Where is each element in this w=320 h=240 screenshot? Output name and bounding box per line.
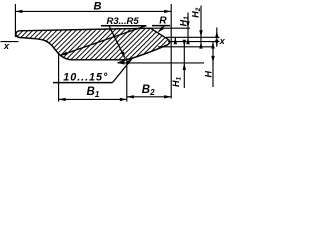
H2 arrows: L2 to L3 outside (199, 30, 202, 37)
L4 nose-bottom extension (158, 46, 214, 48)
section body outline (hatched blade cross-section) (16, 28, 170, 60)
label H (rotated) (204, 71, 214, 78)
angle leader (113, 59, 132, 83)
H1 bottom arrows: L4 to L5 outside (183, 40, 186, 47)
label H2 (top, rotated) (191, 7, 203, 18)
svg-text:x: x (3, 41, 10, 51)
R3...R5 leader to left fillet (62, 26, 147, 55)
dimension line H1 (top) (187, 13, 189, 42)
L1 top-edge extension (151, 27, 191, 29)
dimension nose height (far right): L2 to L4 (216, 28, 218, 47)
label H1 (bottom, rotated) (171, 77, 183, 88)
B extension line left (14, 4, 16, 37)
dimension line H1 (bottom) (183, 42, 185, 88)
L2 nose-top extension (166, 36, 220, 38)
B / B2 extension line right (through nose tip down to B2) (170, 4, 172, 99)
R3...R5 leader to right fillet (109, 26, 125, 58)
dimension line B1 (59, 98, 127, 100)
axis x-x left segment (1, 41, 19, 43)
dimension line H2 (200, 6, 202, 46)
svg-text:H: H (204, 71, 214, 78)
L5 bottom extension (118, 62, 205, 64)
R underline (152, 25, 170, 27)
axis x-x right segment (L3) (168, 41, 220, 43)
svg-text:10...15°: 10...15° (63, 71, 108, 83)
dimension line B (15, 10, 171, 12)
R3...R5 underline (101, 25, 147, 27)
H arrows: L3 to L5 inside (211, 42, 214, 49)
R leader to upper slope (159, 26, 165, 32)
angle vertex arrow on L5 (118, 61, 125, 64)
svg-text:B: B (94, 1, 102, 13)
bottom slope thin extension to angle vertex (118, 59, 131, 63)
10...15 underline (53, 82, 113, 84)
H1 top arrows: L1 to L2 outside (186, 21, 189, 28)
B1 extension left (58, 53, 60, 102)
small tick arrow on L2 near nose (174, 37, 176, 41)
dimension line B2 (127, 96, 171, 98)
label H1 (top, rotated) (178, 16, 190, 27)
svg-text:x: x (219, 36, 226, 46)
dimension line H (212, 42, 214, 87)
B1/B2 shared extension (126, 58, 128, 102)
